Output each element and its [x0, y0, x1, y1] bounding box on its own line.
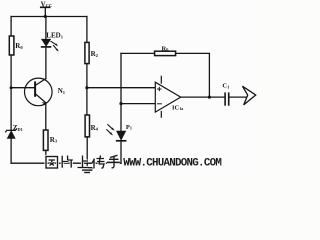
wire LED to collector: [45, 48, 47, 79]
photodiode P1 incident arrow a: [108, 125, 112, 129]
watermark chinese char 上: [78, 156, 89, 168]
wire feedback right: [176, 52, 210, 54]
ground bar 3: [85, 172, 89, 174]
svg-text:IC1a: IC1a: [172, 105, 183, 112]
photodiode P1 cathode bar: [117, 140, 126, 142]
watermark chinese char 图: [46, 157, 58, 169]
op-amp IC1a minus sign: [157, 103, 161, 105]
wire zener to bottom rail: [10, 138, 12, 163]
wire left branch upper: [10, 17, 12, 37]
wire feedback down to output: [208, 53, 210, 97]
wire R4 to bottom rail: [86, 137, 88, 163]
wire noninverting input: [87, 87, 155, 89]
capacitor C1 left plate: [224, 93, 226, 105]
watermark chinese char 传: [92, 156, 105, 169]
svg-text:C1: C1: [222, 83, 229, 90]
LED1 cathode bar: [42, 46, 51, 48]
wire R3 to bottom rail: [45, 150, 47, 163]
ground stub: [86, 163, 88, 167]
wire photodiode to bottom rail: [120, 142, 122, 164]
wire emitter down: [45, 103, 47, 130]
LED1 emission arrow a: [51, 42, 56, 45]
transistor N1 emitter diagonal: [36, 94, 46, 103]
op-amp IC1a positive supply pin: [160, 76, 162, 83]
wire divider to R4: [86, 88, 88, 115]
transistor N1 emitter arrowhead: [42, 102, 47, 105]
transistor N1 base bar: [34, 82, 36, 95]
watermark chinese char 于: [107, 155, 120, 167]
wire feedback top: [121, 52, 155, 54]
op-amp IC1a triangle: [155, 82, 180, 112]
output arrow dart: [242, 86, 255, 105]
wire top rail: [11, 16, 87, 18]
svg-text:P1: P1: [126, 124, 132, 131]
wire Vcc stub: [44, 7, 46, 16]
capacitor C1 right plate: [228, 93, 230, 105]
transistor N1 circle: [25, 78, 53, 106]
resistor R3 body: [43, 130, 48, 150]
zener ZD1 cathode bar: [6, 129, 17, 132]
wire op-amp output: [181, 96, 225, 98]
node divider junction: [85, 86, 88, 89]
wire base: [11, 87, 35, 89]
LED1 emission arrow b: [54, 46, 57, 50]
wire feedback vertical left: [120, 53, 122, 103]
wire bottom rail: [11, 162, 121, 164]
ground bar 1: [81, 167, 94, 169]
svg-text:R6: R6: [162, 45, 170, 52]
wire R2 branch upper: [86, 17, 88, 43]
wire inverting input: [121, 103, 155, 105]
photodiode P1 incident arrow b: [107, 130, 111, 134]
op-amp IC1a negative supply pin: [160, 111, 162, 117]
watermark chinese char 片: [62, 156, 73, 168]
node inverting junction: [119, 102, 122, 105]
wire R2 to divider junction: [86, 64, 88, 88]
node output junction: [208, 96, 211, 99]
power net Vcc symbol: [41, 6, 50, 8]
svg-text:WWW.CHUANDONG.COM: WWW.CHUANDONG.COM: [123, 158, 221, 170]
LED1 triangle: [42, 39, 51, 46]
wire left branch to base junction and zener: [10, 55, 12, 130]
zener ZD1 triangle: [7, 131, 15, 138]
node top rail / Vcc junction: [44, 15, 47, 18]
wire inverting node to photodiode: [120, 104, 122, 131]
photodiode P1 triangle: [117, 131, 126, 140]
resistor R0 body: [9, 36, 14, 55]
op-amp IC1a plus sign: [158, 87, 161, 90]
transistor N1 collector diagonal: [36, 79, 46, 85]
node base junction: [10, 86, 13, 89]
resistor R4 body: [85, 115, 89, 137]
wire C1 to output arrow: [229, 96, 247, 98]
wire LED branch upper: [45, 17, 47, 40]
resistor R2 body: [85, 42, 89, 63]
ground bar 2: [83, 169, 92, 171]
resistor R6 body: [155, 51, 176, 55]
